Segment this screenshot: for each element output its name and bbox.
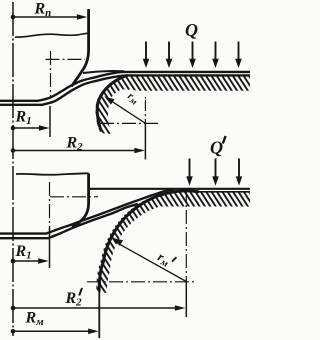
svg-text:Q: Q bbox=[210, 138, 223, 158]
svg-text:Q: Q bbox=[185, 20, 198, 40]
svg-text:R1: R1 bbox=[15, 109, 32, 128]
svg-text:rм: rм bbox=[154, 249, 173, 270]
svg-text:R2: R2 bbox=[66, 135, 84, 154]
svg-text:Rп: Rп bbox=[34, 1, 52, 20]
svg-text:Rм: Rм bbox=[25, 310, 45, 329]
svg-text:R1: R1 bbox=[15, 243, 32, 262]
